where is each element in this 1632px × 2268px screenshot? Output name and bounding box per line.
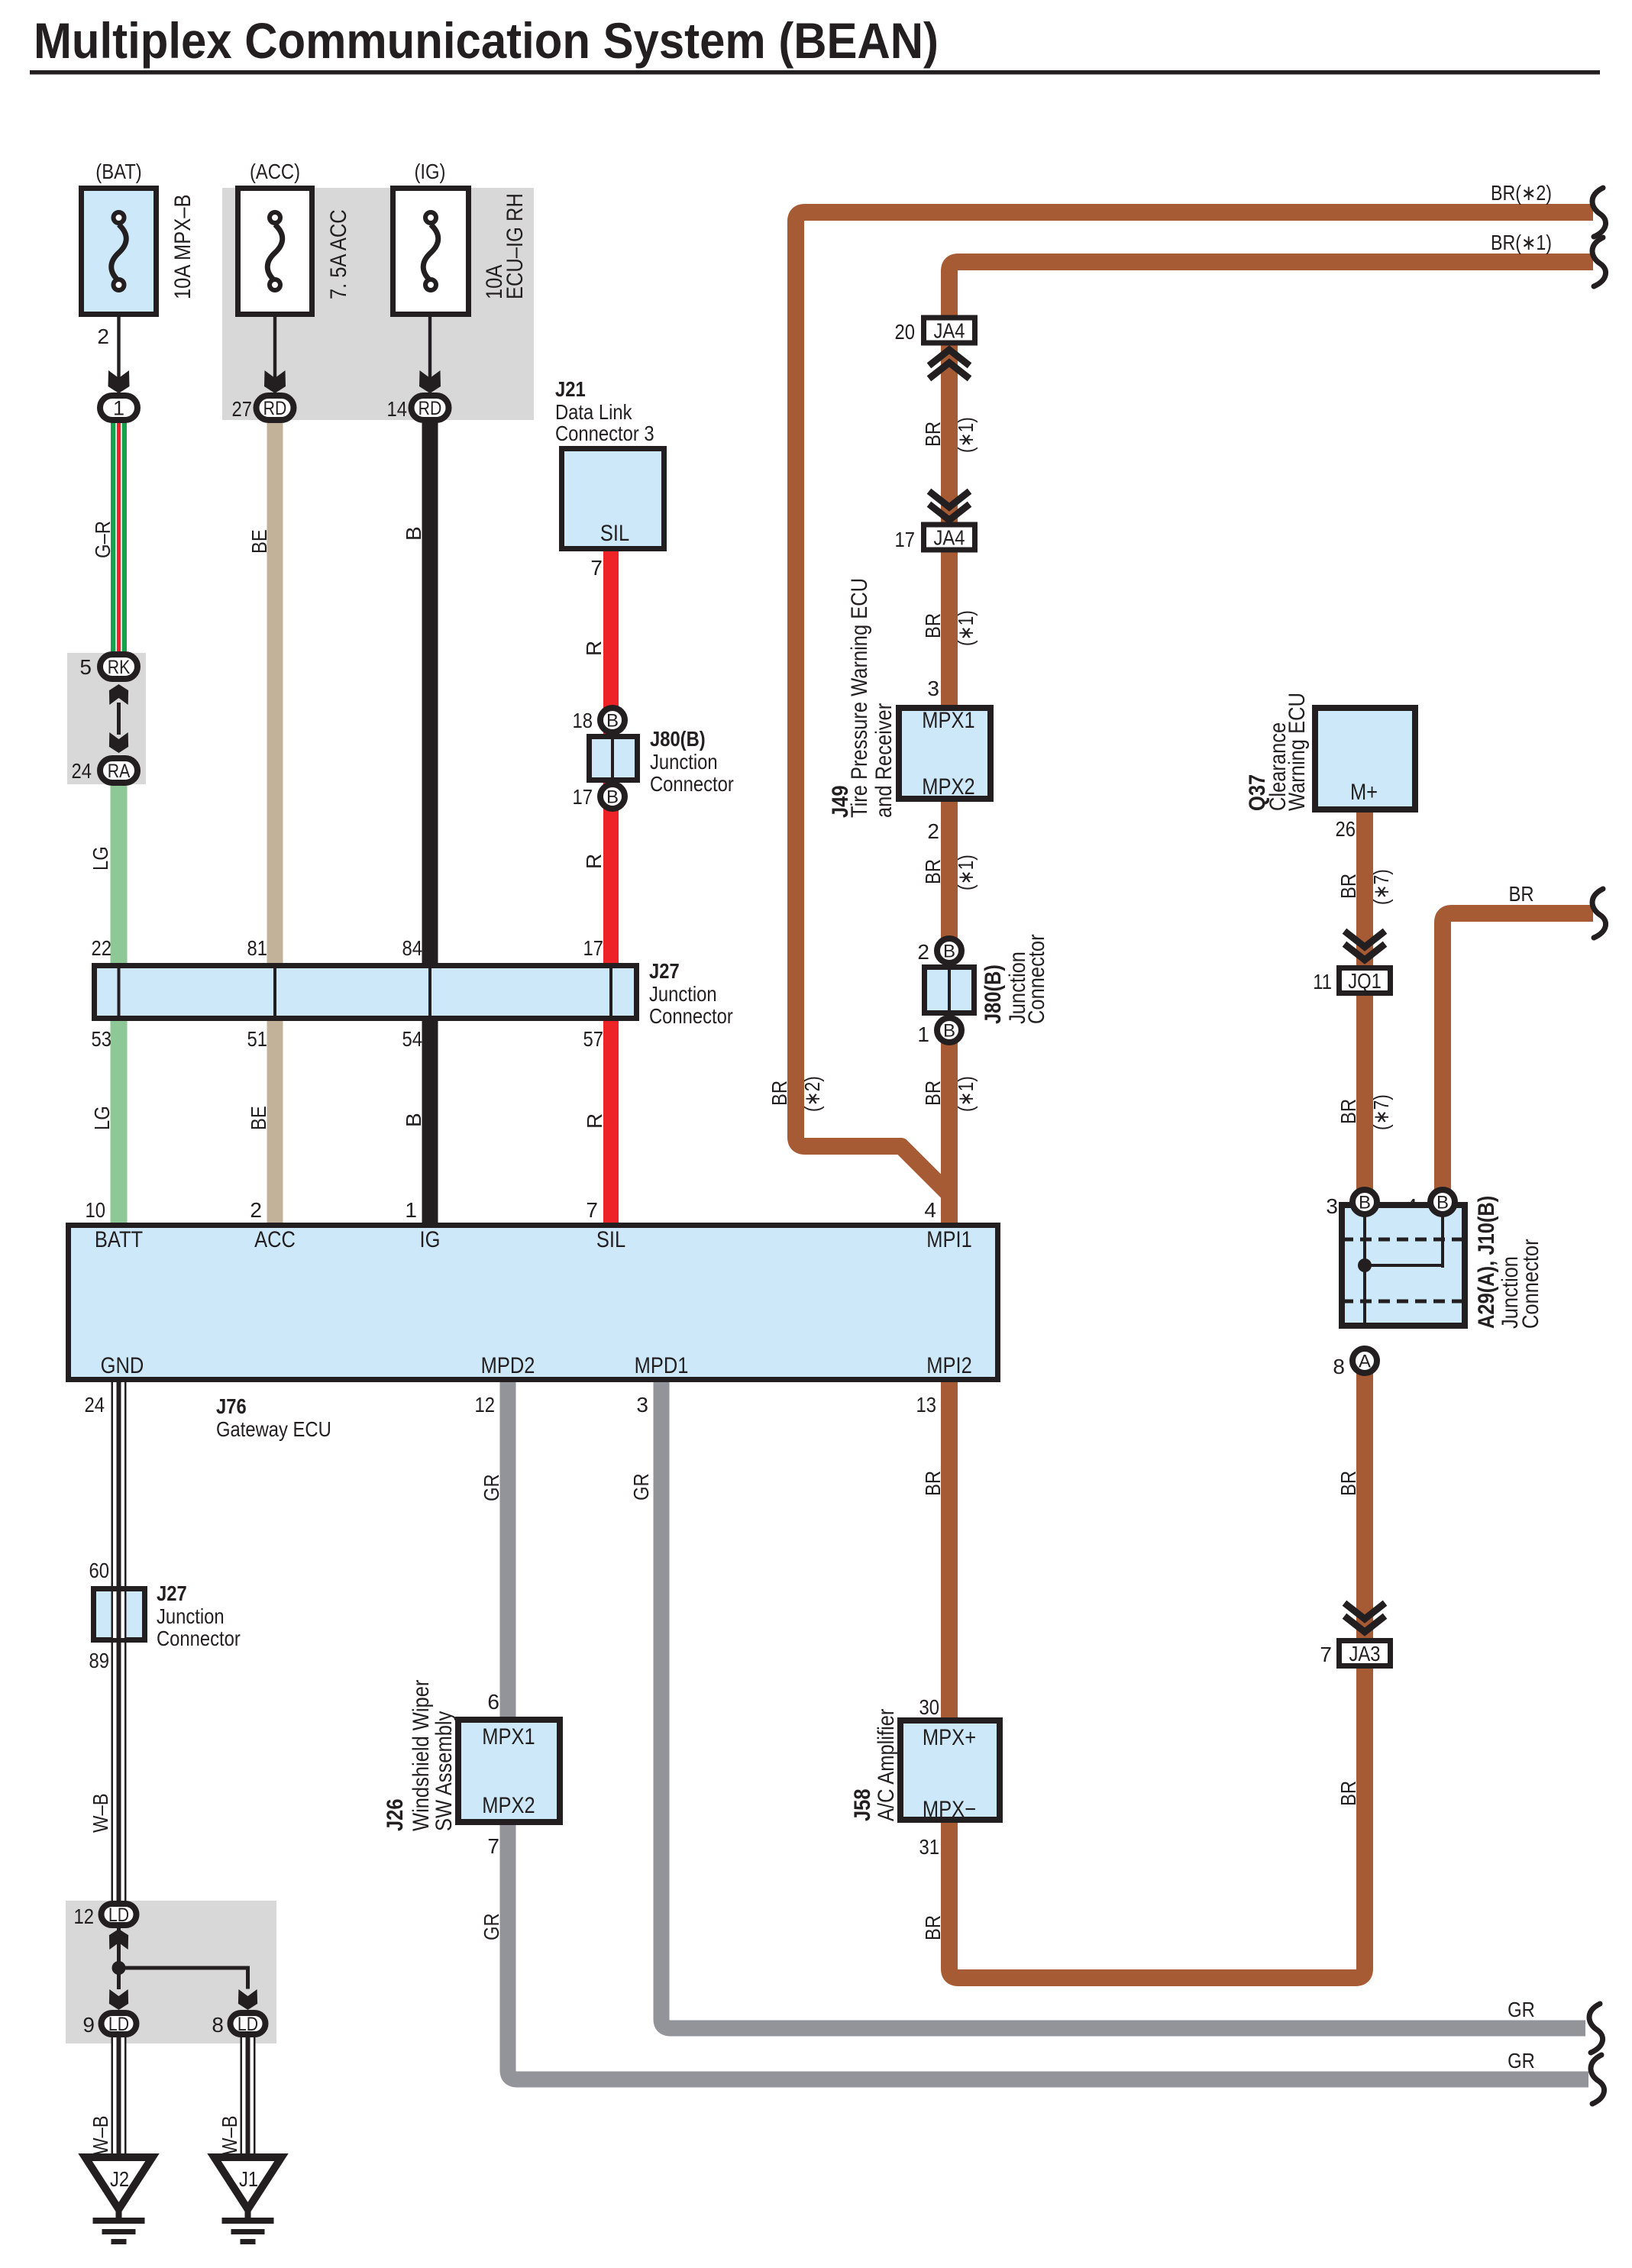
connector circle B 3 (1352, 1190, 1377, 1214)
svg-text:B: B (943, 942, 955, 962)
label J26 Windshield Wiper SW Assembly (383, 1680, 457, 1831)
svg-text:BR: BR (921, 1081, 945, 1106)
svg-text:17: 17 (573, 785, 593, 809)
svg-text:LD: LD (108, 1905, 129, 1926)
svg-text:53: 53 (92, 1027, 112, 1051)
label J27 GND junction connector (157, 1581, 241, 1650)
connector JQ1 (1340, 968, 1391, 993)
svg-text:3: 3 (927, 677, 939, 700)
svg-text:12: 12 (74, 1905, 95, 1928)
svg-text:SIL: SIL (596, 1227, 625, 1252)
svg-text:JA3: JA3 (1349, 1642, 1381, 1665)
svg-text:10A MPX–B: 10A MPX–B (170, 195, 196, 299)
svg-text:R: R (583, 1113, 606, 1129)
svg-text:R: R (582, 854, 606, 869)
interconnect line RK-RA (117, 703, 121, 735)
svg-text:Windshield Wiper: Windshield Wiper (409, 1680, 434, 1831)
svg-text:Multiplex Communication System: Multiplex Communication System (BEAN) (34, 12, 939, 69)
svg-text:5: 5 (79, 655, 92, 679)
label BR (*1) segment c (921, 855, 978, 890)
arrow into connector RD 14 (419, 370, 441, 393)
svg-text:17: 17 (895, 528, 916, 551)
wire GR gateway MPD1 to right break (661, 1376, 1585, 2028)
svg-text:7: 7 (590, 556, 603, 580)
svg-text:B: B (606, 787, 619, 808)
line dot to LD9 (117, 1968, 121, 1989)
label BR (*2) segment (768, 1076, 824, 1112)
svg-text:JQ1: JQ1 (1348, 969, 1382, 993)
svg-text:Connector: Connector (157, 1627, 241, 1650)
svg-text:BR: BR (1336, 874, 1360, 899)
fuse block shaded region (222, 188, 534, 420)
svg-text:M+: M+ (1350, 780, 1378, 805)
wire W-B LD8 to ground J1 (241, 2036, 256, 2160)
svg-text:Connector: Connector (1518, 1239, 1543, 1329)
svg-text:and Receiver: and Receiver (871, 703, 897, 818)
svg-text:GR: GR (480, 1474, 503, 1501)
label A29(A) J10(B) junction connector (1474, 1196, 1543, 1329)
svg-text:Warning ECU: Warning ECU (1285, 693, 1310, 811)
svg-text:GR: GR (480, 1913, 503, 1940)
wire B from fuse IG to gateway IG (422, 418, 438, 1229)
svg-text:LG: LG (90, 1106, 114, 1130)
svg-text:JA4: JA4 (934, 319, 965, 343)
svg-text:BE: BE (247, 1106, 270, 1130)
arrow into connector RD 27 (264, 370, 286, 393)
svg-text:MPD2: MPD2 (481, 1353, 535, 1378)
wire fuse BAT output (117, 317, 120, 380)
svg-text:(∗7): (∗7) (1369, 1094, 1393, 1130)
connector oval LD 9 (102, 2013, 137, 2034)
svg-text:84: 84 (402, 936, 423, 960)
svg-text:20: 20 (895, 320, 916, 344)
svg-text:GND: GND (101, 1353, 144, 1378)
break symbol BR(*2) (1592, 188, 1606, 237)
wire W-B LD9 to ground J2 (111, 2036, 127, 2160)
svg-text:ACC: ACC (254, 1227, 296, 1252)
svg-text:RK: RK (108, 657, 131, 678)
svg-text:J1: J1 (239, 2167, 258, 2191)
label J80(B) junction connector on MPI1 (981, 934, 1049, 1024)
svg-text:54: 54 (402, 1027, 423, 1051)
svg-text:J26: J26 (383, 1799, 408, 1832)
wire fuse IG output (428, 317, 431, 380)
svg-text:MPX−: MPX− (923, 1797, 976, 1822)
svg-text:BR: BR (921, 422, 945, 447)
label J49 Tire Pressure Warning ECU and Receiver (828, 578, 897, 818)
svg-text:MPX2: MPX2 (482, 1793, 535, 1818)
svg-text:LD: LD (108, 2014, 129, 2035)
svg-text:2: 2 (917, 940, 929, 964)
wire BE from fuse ACC to gateway ACC (267, 418, 283, 1229)
svg-text:BR(∗1): BR(∗1) (1491, 231, 1552, 254)
svg-text:B: B (1359, 1193, 1371, 1213)
svg-text:MPI1: MPI1 (926, 1227, 972, 1252)
svg-text:BATT: BATT (95, 1227, 143, 1252)
label BR (*1) segment d (921, 1076, 978, 1112)
connector JA3 (1340, 1641, 1391, 1666)
svg-text:2: 2 (927, 819, 939, 843)
svg-text:W–B: W–B (89, 1793, 112, 1833)
connector oval RA (100, 758, 137, 783)
svg-text:GR: GR (1508, 1998, 1535, 2021)
svg-text:7: 7 (1320, 1643, 1332, 1666)
wire BR(*1) JA4-17 to J49 MPX1 (941, 548, 958, 710)
ground J1 (215, 2157, 282, 2209)
svg-text:MPX1: MPX1 (922, 708, 974, 733)
arrow into LD12 (109, 1929, 128, 1950)
svg-text:J27: J27 (157, 1581, 187, 1605)
svg-text:Data Link: Data Link (555, 400, 632, 424)
wire BR gateway MPI2 to J58 MPX+ (941, 1376, 958, 1722)
svg-text:BR: BR (921, 859, 945, 884)
svg-text:JA4: JA4 (934, 526, 965, 550)
svg-text:1: 1 (405, 1198, 417, 1222)
label BR (*1) segment a (921, 417, 978, 453)
svg-text:BR: BR (921, 613, 945, 638)
junction line LD12 to branch dot (117, 1927, 121, 1970)
svg-text:(∗2): (∗2) (800, 1076, 824, 1112)
connector oval RD (ACC) (257, 396, 294, 420)
svg-text:B: B (402, 526, 425, 541)
svg-text:57: 57 (583, 1027, 604, 1051)
svg-text:MPX1: MPX1 (482, 1724, 535, 1749)
svg-text:J80(B): J80(B) (650, 727, 706, 751)
chevrons down into JA3 (1347, 1605, 1382, 1619)
svg-text:7: 7 (487, 1834, 499, 1858)
svg-text:13: 13 (916, 1393, 937, 1417)
connector J21 Data Link Connector 3 (562, 449, 664, 549)
svg-text:BR: BR (921, 1471, 945, 1496)
connector oval RD (IG) (412, 396, 449, 420)
svg-text:26: 26 (1336, 817, 1356, 841)
svg-text:G–R: G–R (91, 521, 115, 558)
connector circle B 17 (600, 784, 625, 809)
connector JA4 pin 17 (924, 525, 975, 550)
svg-text:B: B (402, 1113, 425, 1127)
svg-text:BR(∗2): BR(∗2) (1491, 181, 1552, 205)
svg-text:B: B (943, 1021, 955, 1042)
svg-text:MPI2: MPI2 (926, 1353, 972, 1378)
svg-text:MPX2: MPX2 (922, 774, 974, 800)
break symbol GR upper (1589, 2004, 1603, 2053)
svg-text:IG: IG (420, 1227, 441, 1252)
svg-text:14: 14 (387, 397, 408, 421)
junction connector J27 bar (95, 966, 637, 1019)
svg-text:Tire Pressure Warning ECU: Tire Pressure Warning ECU (847, 578, 872, 818)
ECU Q37 Clearance Warning ECU (1315, 708, 1415, 809)
svg-text:BR: BR (1508, 882, 1533, 906)
svg-text:11: 11 (1313, 970, 1332, 993)
svg-text:31: 31 (919, 1835, 940, 1859)
svg-text:Connector 3: Connector 3 (555, 422, 654, 445)
connector circle B 2 (937, 939, 961, 963)
svg-text:1: 1 (113, 397, 124, 420)
label BR (*1) segment b (921, 610, 978, 646)
svg-text:BR: BR (921, 1915, 945, 1940)
wire BR(*7) Q37 M+ to JQ1 (1356, 808, 1373, 968)
svg-text:8: 8 (212, 2013, 224, 2037)
svg-text:1: 1 (917, 1023, 929, 1046)
svg-text:J21: J21 (555, 377, 586, 401)
svg-text:BR: BR (1336, 1781, 1360, 1806)
wire LG from RA to gateway BATT (111, 783, 128, 1229)
svg-text:89: 89 (89, 1649, 110, 1672)
wire BR from J58 MPX- to JA3 riser (949, 1665, 1365, 1978)
wire BR(*7) JQ1 to A29 pin B3 (1356, 993, 1373, 1193)
svg-text:J58: J58 (850, 1789, 875, 1822)
connector JA4 pin 20 (924, 318, 975, 343)
svg-text:Junction: Junction (157, 1604, 225, 1628)
label BR (*7) segment b (1336, 1094, 1393, 1130)
svg-text:12: 12 (475, 1393, 496, 1417)
label J76 Gateway ECU (216, 1394, 331, 1441)
connector circle B 1 (937, 1018, 961, 1042)
svg-text:ECU–IG RH: ECU–IG RH (503, 193, 528, 299)
svg-text:A29(A), J10(B): A29(A), J10(B) (1474, 1196, 1499, 1329)
svg-text:30: 30 (919, 1695, 940, 1719)
svg-text:Gateway ECU: Gateway ECU (216, 1417, 331, 1441)
ECU J49 Tire Pressure Warning ECU and Receiver (899, 708, 991, 800)
svg-text:81: 81 (247, 936, 268, 960)
svg-text:51: 51 (247, 1027, 268, 1051)
junction connector A29(A) J10(B) (1342, 1205, 1465, 1326)
wire fuse ACC output (273, 317, 276, 380)
svg-text:6: 6 (487, 1690, 499, 1714)
svg-text:MPX+: MPX+ (923, 1725, 976, 1750)
label J21 (555, 377, 654, 445)
connector oval RK (100, 654, 137, 679)
svg-text:BE: BE (247, 529, 271, 554)
svg-text:60: 60 (89, 1559, 110, 1582)
svg-text:27: 27 (232, 397, 253, 421)
wire BR(*2) from top break to MPI1 junction (796, 212, 1593, 1196)
label Q37 Clearance Warning ECU (1245, 693, 1310, 811)
title underline (30, 70, 1600, 75)
svg-text:17: 17 (583, 936, 604, 960)
svg-text:W–B: W–B (218, 2115, 241, 2155)
wire W-B gateway GND to LD12 (111, 1376, 127, 1905)
svg-text:(BAT): (BAT) (95, 160, 141, 183)
svg-text:B: B (606, 711, 619, 732)
wire BR(*1) J80(B) to gateway MPI1 (941, 1042, 958, 1229)
svg-text:GR: GR (1508, 2049, 1535, 2073)
svg-text:LD: LD (238, 2014, 258, 2035)
chevrons down into JQ1 (1347, 933, 1382, 947)
junction connector J80(B) on SIL (590, 736, 638, 780)
svg-text:(∗1): (∗1) (954, 610, 978, 646)
svg-text:10: 10 (86, 1198, 106, 1222)
svg-text:(∗1): (∗1) (954, 1076, 978, 1112)
wire GR J26 MPX2 to right break (508, 1821, 1588, 2079)
svg-text:J80(B): J80(B) (981, 964, 1006, 1024)
wire BR(*1) from top break to JA4-20 (949, 262, 1593, 321)
svg-text:LG: LG (89, 846, 112, 871)
ECU J26 Windshield Wiper SW Assembly (458, 1720, 560, 1822)
svg-text:(IG): (IG) (415, 160, 446, 183)
connector circle A 8 (1352, 1349, 1377, 1373)
svg-text:24: 24 (72, 759, 92, 783)
svg-text:2: 2 (97, 325, 109, 348)
svg-text:4: 4 (924, 1198, 936, 1222)
break symbol BR right (1592, 889, 1606, 938)
svg-text:R: R (582, 641, 606, 656)
wire W-B through J27 (111, 1591, 127, 1638)
ECU J76 Gateway ECU (69, 1226, 998, 1380)
svg-text:(∗7): (∗7) (1369, 869, 1393, 905)
wire BR(*1) J49 MPX2 to J80(B) (941, 796, 958, 941)
svg-text:3: 3 (1326, 1194, 1338, 1218)
svg-text:GR: GR (629, 1473, 653, 1501)
chevrons up into JA4-20 (932, 350, 967, 363)
svg-text:8: 8 (1333, 1355, 1345, 1378)
svg-text:RD: RD (419, 398, 442, 419)
svg-text:B: B (1436, 1193, 1449, 1213)
svg-text:Connector: Connector (1024, 934, 1049, 1024)
connector oval 1 (100, 396, 137, 420)
svg-text:RD: RD (263, 398, 287, 419)
svg-text:2: 2 (250, 1198, 262, 1222)
wire BR JA3 to A29 pin A8 (1356, 1371, 1373, 1642)
svg-text:22: 22 (92, 936, 112, 960)
svg-text:BR: BR (768, 1081, 791, 1106)
connector shaded region LD (66, 1901, 276, 2043)
svg-text:(∗1): (∗1) (954, 855, 978, 890)
svg-text:J27: J27 (649, 959, 680, 983)
connector circle B 18 (600, 708, 625, 732)
svg-text:9: 9 (82, 2013, 95, 2037)
junction connector J80(B) on MPI1 (925, 967, 974, 1013)
svg-text:W–B: W–B (89, 2115, 112, 2155)
junction connector J27 on GND (94, 1589, 145, 1640)
svg-text:(∗1): (∗1) (954, 417, 978, 453)
arrow into LD9 (109, 1989, 128, 2010)
svg-text:J76: J76 (216, 1394, 247, 1418)
wire R from J21 SIL to gateway SIL (603, 550, 619, 1229)
svg-text:Junction: Junction (649, 982, 717, 1006)
svg-text:Junction: Junction (650, 750, 718, 774)
svg-text:Connector: Connector (649, 1004, 733, 1028)
svg-text:(ACC): (ACC) (250, 160, 300, 183)
wire GR gateway MPD2 to J26 MPX1 (500, 1376, 516, 1722)
svg-text:BR: BR (1336, 1471, 1360, 1496)
label BR (*7) segment a (1336, 869, 1393, 905)
connector circle B 4 (1430, 1190, 1455, 1214)
svg-text:BR: BR (1336, 1099, 1360, 1124)
arrow up into RK (109, 684, 128, 705)
fuse 7.5A ACC (238, 189, 312, 315)
fuse 10A MPX-B (BAT) (82, 189, 157, 315)
svg-text:7. 5A ACC: 7. 5A ACC (326, 209, 351, 299)
connector oval LD 12 (102, 1904, 137, 1925)
svg-text:SW Assembly: SW Assembly (431, 1711, 457, 1831)
wire BR(*1) JA4-20 to JA4-17 (941, 342, 958, 527)
svg-text:7: 7 (586, 1198, 598, 1222)
wire BR from right break to A29 pin B4 (1443, 913, 1593, 1193)
svg-text:18: 18 (573, 709, 593, 732)
fuse 10A ECU-IG RH (393, 189, 469, 315)
svg-text:RA: RA (108, 761, 131, 782)
label J27 junction connector (649, 959, 733, 1028)
label J58 A/C Amplifier (850, 1709, 899, 1821)
arrow down into RA (109, 732, 128, 753)
chevrons down into JA4-17 (932, 493, 967, 507)
wire G-R from connector 1 to RK (111, 422, 127, 654)
junction dot (112, 1961, 126, 1975)
label 10A ECU-IG RH (482, 193, 528, 299)
svg-text:Connector: Connector (650, 772, 734, 796)
arrow into LD8 (238, 1989, 257, 2010)
svg-text:SIL: SIL (600, 521, 629, 546)
svg-text:A: A (1359, 1352, 1371, 1372)
ground J2 (86, 2157, 153, 2209)
svg-text:A/C Amplifier: A/C Amplifier (874, 1709, 899, 1821)
break symbol BR(*1) (1592, 237, 1606, 286)
branch line to LD8 (117, 1966, 248, 1970)
label J80(B) junction connector (650, 727, 734, 796)
svg-text:J2: J2 (110, 2167, 129, 2191)
svg-text:3: 3 (636, 1393, 648, 1417)
svg-text:MPD1: MPD1 (635, 1353, 689, 1378)
connector shaded region RK/RA (67, 653, 146, 784)
svg-text:24: 24 (85, 1393, 105, 1417)
ECU J58 A/C Amplifier (900, 1720, 1000, 1822)
arrow into connector 1 (108, 370, 130, 393)
break symbol GR lower (1591, 2055, 1605, 2104)
connector oval LD 8 (231, 2013, 266, 2034)
